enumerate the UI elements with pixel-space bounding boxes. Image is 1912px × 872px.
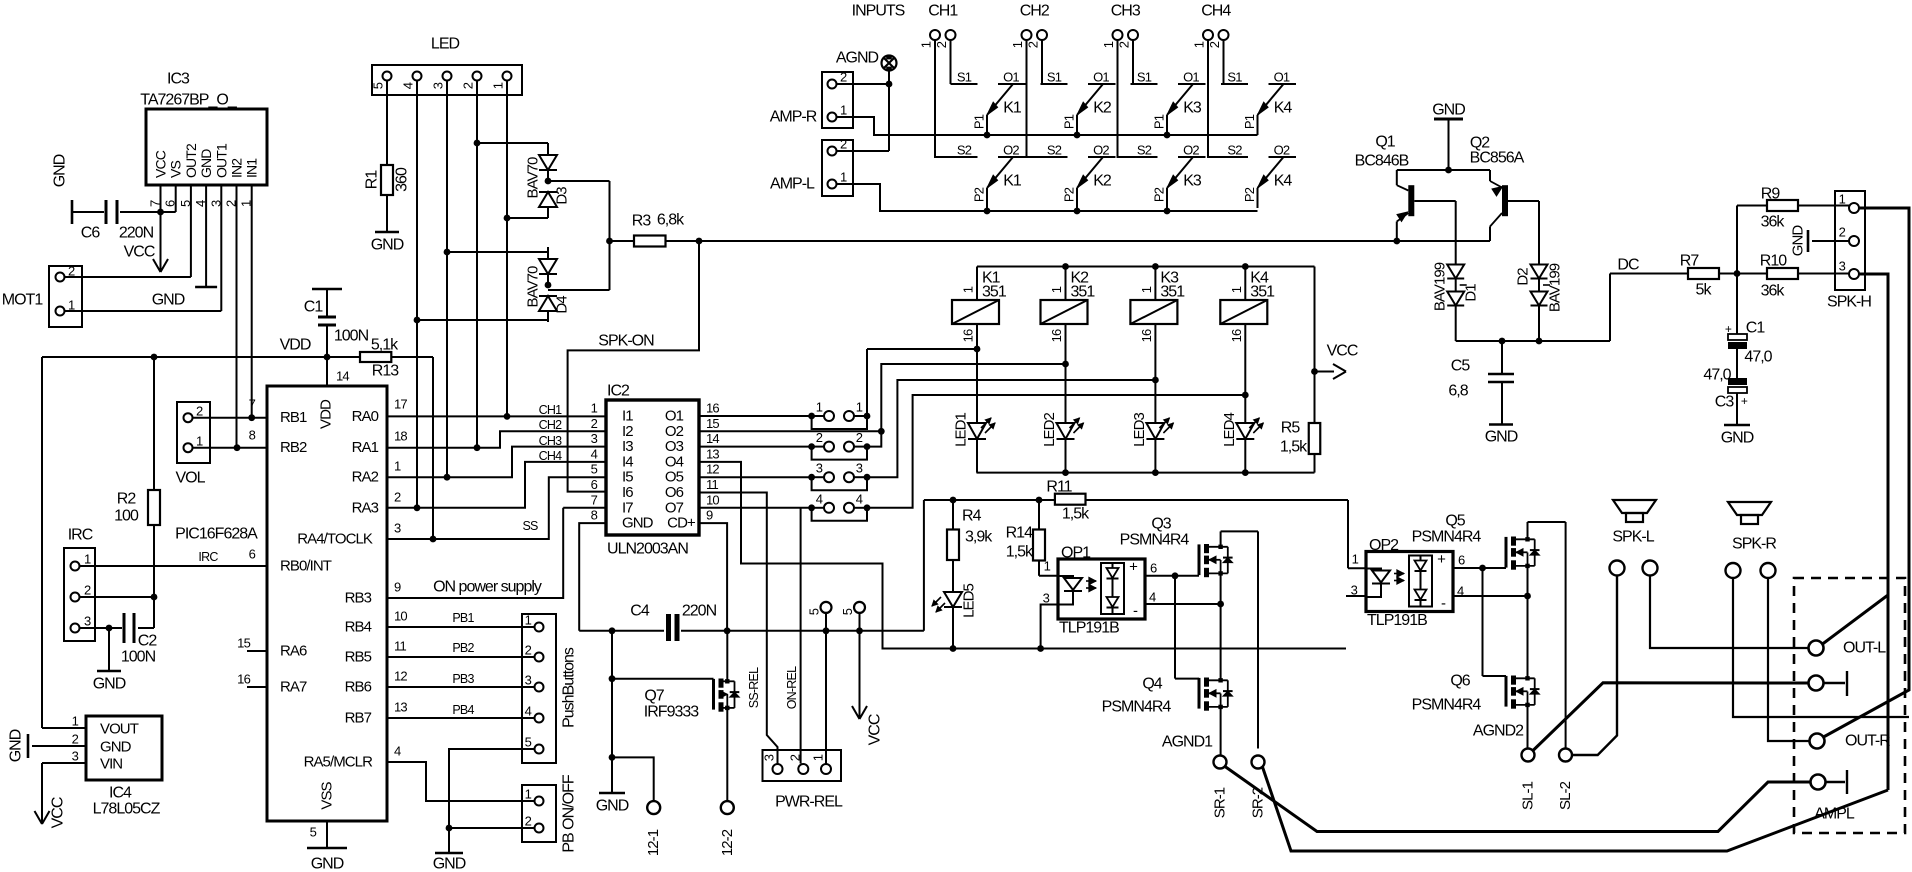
- svg-text:15: 15: [237, 636, 250, 651]
- svg-text:2: 2: [1839, 225, 1846, 240]
- svg-text:2: 2: [196, 404, 203, 419]
- svg-text:5: 5: [807, 608, 822, 615]
- svg-text:LED5: LED5: [961, 584, 978, 618]
- svg-text:BAV70: BAV70: [525, 157, 542, 199]
- svg-text:GND: GND: [311, 856, 344, 872]
- svg-text:OP1: OP1: [1061, 545, 1091, 562]
- svg-text:K2: K2: [1093, 100, 1112, 117]
- svg-text:+: +: [1725, 322, 1732, 336]
- svg-text:13: 13: [706, 446, 719, 461]
- svg-text:VS: VS: [168, 161, 184, 178]
- svg-text:1,5k: 1,5k: [1280, 439, 1308, 456]
- svg-text:K4: K4: [1274, 173, 1293, 190]
- svg-text:3: 3: [72, 749, 79, 764]
- svg-text:PB3: PB3: [452, 672, 474, 686]
- svg-text:PB2: PB2: [452, 641, 474, 655]
- svg-text:RB1: RB1: [280, 409, 307, 426]
- svg-text:1: 1: [84, 552, 91, 567]
- svg-text:C4: C4: [630, 603, 650, 620]
- svg-text:+: +: [1741, 394, 1748, 408]
- svg-text:O2: O2: [1183, 143, 1199, 158]
- svg-text:AGND2: AGND2: [1473, 723, 1524, 740]
- svg-text:DC: DC: [1617, 257, 1639, 274]
- svg-text:16: 16: [961, 329, 976, 342]
- svg-text:1: 1: [196, 434, 203, 449]
- svg-text:BAV199: BAV199: [1547, 263, 1564, 312]
- svg-text:3: 3: [762, 754, 777, 761]
- svg-text:PB4: PB4: [452, 703, 474, 717]
- svg-text:K2: K2: [1093, 173, 1112, 190]
- svg-text:1: 1: [1352, 552, 1359, 567]
- svg-text:IRC: IRC: [68, 527, 93, 544]
- svg-text:RA3: RA3: [352, 499, 379, 516]
- svg-text:1: 1: [840, 170, 847, 185]
- svg-text:360: 360: [394, 167, 411, 192]
- svg-text:R13: R13: [372, 363, 399, 380]
- svg-text:S1: S1: [1227, 70, 1242, 85]
- svg-text:O2: O2: [1003, 143, 1019, 158]
- svg-text:GND: GND: [1790, 225, 1807, 257]
- svg-text:1: 1: [1010, 41, 1025, 48]
- svg-text:TLP191B: TLP191B: [1367, 612, 1427, 629]
- svg-text:D2: D2: [1515, 268, 1532, 286]
- svg-text:100: 100: [114, 508, 139, 525]
- svg-text:GND: GND: [152, 292, 185, 309]
- svg-text:2: 2: [525, 814, 532, 829]
- svg-text:3: 3: [525, 673, 532, 688]
- svg-text:4: 4: [816, 491, 823, 506]
- svg-text:6,8k: 6,8k: [657, 212, 685, 229]
- svg-text:3,9k: 3,9k: [965, 529, 993, 546]
- svg-text:AMPL: AMPL: [1814, 806, 1855, 823]
- svg-text:IRC: IRC: [198, 550, 218, 564]
- svg-text:BAV199: BAV199: [1432, 262, 1449, 311]
- svg-text:RB3: RB3: [345, 590, 372, 607]
- svg-text:PIC16F628A: PIC16F628A: [175, 526, 258, 543]
- svg-text:PSMN4R4: PSMN4R4: [1102, 699, 1172, 716]
- svg-text:C1: C1: [1746, 320, 1766, 337]
- svg-text:2: 2: [816, 430, 823, 445]
- svg-text:RB6: RB6: [345, 679, 372, 696]
- svg-text:5: 5: [840, 608, 855, 615]
- svg-text:13: 13: [394, 700, 407, 715]
- svg-text:2: 2: [840, 70, 847, 85]
- svg-text:LED3: LED3: [1131, 413, 1148, 447]
- svg-text:1: 1: [919, 41, 934, 48]
- svg-text:D4: D4: [554, 296, 571, 314]
- svg-text:O1: O1: [1003, 70, 1019, 85]
- svg-text:11: 11: [394, 639, 406, 654]
- svg-text:2: 2: [1026, 41, 1041, 48]
- svg-text:K3: K3: [1183, 173, 1202, 190]
- svg-text:1: 1: [491, 82, 506, 89]
- svg-text:O2: O2: [1093, 143, 1109, 158]
- svg-text:Q4: Q4: [1142, 676, 1162, 693]
- svg-text:15: 15: [706, 416, 719, 431]
- svg-text:CH1: CH1: [539, 403, 562, 417]
- svg-text:GND: GND: [1432, 102, 1465, 119]
- svg-text:3: 3: [394, 521, 401, 536]
- svg-text:C5: C5: [1451, 358, 1471, 375]
- svg-text:14: 14: [706, 431, 719, 446]
- svg-text:12-2: 12-2: [719, 829, 736, 856]
- svg-text:3: 3: [431, 82, 446, 89]
- svg-text:C2: C2: [138, 633, 158, 650]
- svg-text:1: 1: [525, 613, 532, 628]
- svg-text:3: 3: [1839, 259, 1846, 274]
- svg-text:5,1k: 5,1k: [371, 337, 399, 354]
- svg-text:VCC: VCC: [1327, 343, 1358, 360]
- svg-text:VDD: VDD: [318, 399, 335, 429]
- svg-text:PSMN4R4: PSMN4R4: [1412, 697, 1482, 714]
- svg-text:LED: LED: [431, 36, 460, 53]
- svg-text:2: 2: [788, 754, 803, 761]
- svg-text:Q5: Q5: [1445, 513, 1465, 530]
- svg-text:RA1: RA1: [352, 439, 379, 456]
- svg-text:RB7: RB7: [345, 710, 372, 727]
- svg-text:5k: 5k: [1696, 282, 1713, 299]
- svg-text:SR-2: SR-2: [1250, 787, 1267, 818]
- svg-text:47,0: 47,0: [1744, 349, 1772, 366]
- svg-text:S1: S1: [1137, 70, 1152, 85]
- svg-text:ULN2003AN: ULN2003AN: [607, 541, 688, 558]
- svg-text:12: 12: [394, 669, 407, 684]
- svg-text:CD+: CD+: [667, 515, 696, 532]
- svg-text:1,5k: 1,5k: [1006, 544, 1034, 561]
- svg-text:D3: D3: [554, 187, 571, 205]
- svg-text:SL-1: SL-1: [1520, 781, 1537, 810]
- svg-text:8: 8: [249, 428, 256, 443]
- svg-text:VSS: VSS: [319, 781, 336, 809]
- svg-text:AMP-L: AMP-L: [770, 176, 815, 193]
- svg-text:IC2: IC2: [607, 383, 630, 400]
- svg-text:1: 1: [591, 401, 598, 416]
- svg-text:K1: K1: [1003, 173, 1022, 190]
- svg-text:SPK-H: SPK-H: [1827, 294, 1871, 311]
- svg-text:PushButtons: PushButtons: [561, 647, 578, 728]
- svg-text:5: 5: [591, 462, 598, 477]
- svg-text:1: 1: [961, 286, 976, 293]
- svg-text:PSMN4R4: PSMN4R4: [1120, 532, 1190, 549]
- svg-text:AGND1: AGND1: [1162, 734, 1213, 751]
- svg-text:OUT-R: OUT-R: [1845, 733, 1890, 750]
- svg-text:OUT-L: OUT-L: [1843, 640, 1886, 657]
- svg-text:LED1: LED1: [953, 413, 970, 447]
- svg-text:C6: C6: [81, 225, 101, 242]
- svg-text:OP2: OP2: [1369, 537, 1399, 554]
- svg-text:CH3: CH3: [1111, 3, 1141, 20]
- svg-text:RA5/MCLR: RA5/MCLR: [304, 754, 374, 771]
- svg-text:S2: S2: [1227, 143, 1242, 158]
- svg-text:18: 18: [394, 429, 407, 444]
- svg-text:220N: 220N: [119, 225, 154, 242]
- svg-text:LED2: LED2: [1041, 413, 1058, 447]
- svg-text:C3: C3: [1715, 394, 1735, 411]
- svg-text:ON-REL: ON-REL: [785, 666, 799, 709]
- svg-text:SPK-L: SPK-L: [1612, 529, 1654, 546]
- svg-text:3: 3: [816, 461, 823, 476]
- svg-text:1: 1: [1049, 286, 1064, 293]
- svg-text:1: 1: [72, 714, 79, 729]
- svg-text:IRF9333: IRF9333: [644, 704, 700, 721]
- svg-text:4: 4: [1149, 590, 1156, 605]
- svg-text:Q7: Q7: [644, 688, 664, 705]
- svg-text:TA7267BP_O_: TA7267BP_O_: [140, 92, 238, 109]
- svg-text:2: 2: [1207, 41, 1222, 48]
- svg-text:1,5k: 1,5k: [1062, 506, 1090, 523]
- svg-text:RA6: RA6: [280, 643, 307, 660]
- svg-text:VCC: VCC: [124, 244, 155, 261]
- svg-text:IC3: IC3: [167, 71, 190, 88]
- svg-text:1: 1: [840, 103, 847, 118]
- svg-text:2: 2: [591, 416, 598, 431]
- svg-text:S1: S1: [957, 70, 972, 85]
- svg-text:GND: GND: [596, 798, 629, 815]
- svg-text:2: 2: [525, 643, 532, 658]
- svg-text:8: 8: [591, 508, 598, 523]
- svg-text:VDD: VDD: [280, 337, 311, 354]
- svg-text:P2: P2: [972, 187, 987, 202]
- svg-text:GND: GND: [198, 149, 214, 178]
- svg-text:6: 6: [1458, 553, 1465, 568]
- svg-text:VOUT: VOUT: [100, 721, 139, 738]
- svg-text:CH2: CH2: [1020, 3, 1050, 20]
- svg-text:CH4: CH4: [1201, 3, 1231, 20]
- svg-text:BAV70: BAV70: [525, 266, 542, 308]
- svg-text:3: 3: [1043, 591, 1050, 606]
- svg-text:100N: 100N: [334, 328, 369, 345]
- svg-text:K4: K4: [1274, 100, 1293, 117]
- svg-text:RB2: RB2: [280, 439, 307, 456]
- svg-text:VCC: VCC: [50, 797, 67, 828]
- svg-text:16: 16: [1139, 329, 1154, 342]
- svg-text:16: 16: [1049, 329, 1064, 342]
- svg-text:10: 10: [394, 609, 407, 624]
- svg-text:GND: GND: [93, 676, 126, 693]
- svg-text:4: 4: [401, 82, 416, 89]
- svg-text:RA0: RA0: [352, 408, 379, 425]
- svg-text:P1: P1: [1242, 114, 1257, 129]
- svg-text:Q3: Q3: [1151, 516, 1171, 533]
- svg-text:S1: S1: [1047, 70, 1062, 85]
- svg-text:11: 11: [706, 477, 718, 492]
- svg-text:10: 10: [706, 492, 719, 507]
- svg-text:RB4: RB4: [345, 619, 372, 636]
- svg-text:R3: R3: [632, 213, 652, 230]
- svg-text:GND: GND: [1485, 429, 1518, 446]
- svg-text:IN2: IN2: [229, 158, 245, 178]
- svg-text:OUT2: OUT2: [183, 143, 199, 178]
- svg-text:1: 1: [1192, 41, 1207, 48]
- svg-text:2: 2: [72, 732, 79, 747]
- svg-text:36k: 36k: [1761, 283, 1786, 300]
- svg-text:PSMN4R4: PSMN4R4: [1412, 529, 1482, 546]
- svg-text:9: 9: [394, 580, 401, 595]
- svg-text:3: 3: [856, 461, 863, 476]
- svg-text:BC846B: BC846B: [1355, 153, 1409, 170]
- svg-text:2: 2: [840, 137, 847, 152]
- svg-text:4: 4: [856, 491, 863, 506]
- svg-text:O1: O1: [1183, 70, 1199, 85]
- svg-text:3: 3: [591, 431, 598, 446]
- svg-text:2: 2: [1117, 41, 1132, 48]
- svg-text:4: 4: [525, 704, 532, 719]
- svg-text:R14: R14: [1006, 525, 1033, 542]
- svg-text:GND: GND: [52, 154, 69, 187]
- svg-text:1: 1: [1139, 286, 1154, 293]
- svg-text:AGND: AGND: [836, 50, 879, 67]
- svg-text:R5: R5: [1281, 420, 1301, 437]
- svg-text:4: 4: [394, 744, 401, 759]
- svg-text:CH2: CH2: [539, 418, 562, 432]
- svg-text:P2: P2: [1242, 187, 1257, 202]
- svg-text:4: 4: [591, 446, 598, 461]
- svg-text:L78L05CZ: L78L05CZ: [93, 801, 161, 818]
- svg-text:GND: GND: [622, 515, 654, 532]
- svg-text:100N: 100N: [121, 649, 156, 666]
- svg-text:1: 1: [1229, 286, 1244, 293]
- svg-text:VCC: VCC: [153, 150, 169, 178]
- svg-text:S2: S2: [1047, 143, 1062, 158]
- svg-text:O1: O1: [1093, 70, 1109, 85]
- svg-text:5: 5: [310, 825, 317, 840]
- svg-text:220N: 220N: [682, 603, 717, 620]
- svg-text:GND: GND: [371, 237, 404, 254]
- svg-text:2: 2: [84, 583, 91, 598]
- svg-text:6: 6: [591, 477, 598, 492]
- svg-text:1: 1: [856, 400, 863, 415]
- svg-text:R7: R7: [1680, 253, 1700, 270]
- svg-text:1: 1: [1044, 559, 1051, 574]
- svg-text:SPK-R: SPK-R: [1732, 536, 1776, 553]
- svg-text:P2: P2: [1062, 187, 1077, 202]
- svg-text:2: 2: [856, 430, 863, 445]
- svg-text:K1: K1: [1003, 100, 1022, 117]
- svg-text:1: 1: [394, 459, 401, 474]
- svg-text:6,8: 6,8: [1448, 383, 1468, 400]
- svg-text:351: 351: [1071, 284, 1096, 301]
- svg-text:S2: S2: [1137, 143, 1152, 158]
- svg-text:R10: R10: [1760, 253, 1787, 270]
- svg-text:5: 5: [525, 735, 532, 750]
- svg-text:R2: R2: [117, 491, 137, 508]
- svg-text:RB0/INT: RB0/INT: [280, 558, 332, 575]
- svg-text:IN1: IN1: [244, 158, 260, 178]
- svg-text:BC856A: BC856A: [1470, 150, 1525, 167]
- svg-text:7: 7: [591, 492, 598, 507]
- svg-text:12-1: 12-1: [645, 829, 662, 856]
- svg-text:CH4: CH4: [539, 449, 562, 463]
- svg-text:R11: R11: [1046, 479, 1072, 496]
- svg-text:14: 14: [336, 369, 349, 384]
- svg-text:LED4: LED4: [1221, 413, 1238, 447]
- svg-text:C1: C1: [304, 299, 324, 316]
- svg-text:P2: P2: [1152, 187, 1167, 202]
- svg-text:O2: O2: [1274, 143, 1290, 158]
- svg-text:RB5: RB5: [345, 649, 372, 666]
- svg-text:D1: D1: [1463, 284, 1480, 302]
- svg-text:IC4: IC4: [109, 785, 132, 802]
- svg-text:VOL: VOL: [175, 470, 205, 487]
- svg-text:K3: K3: [1183, 100, 1202, 117]
- svg-text:RA2: RA2: [352, 469, 379, 486]
- svg-text:+: +: [1129, 559, 1138, 576]
- svg-text:PWR-REL: PWR-REL: [775, 794, 843, 811]
- svg-text:SPK-ON: SPK-ON: [598, 333, 654, 350]
- svg-text:17: 17: [394, 397, 407, 412]
- svg-text:12: 12: [706, 462, 719, 477]
- svg-text:2: 2: [934, 41, 949, 48]
- svg-text:9: 9: [706, 508, 713, 523]
- svg-text:RA4/TOCLK: RA4/TOCLK: [297, 531, 373, 548]
- svg-text:RA7: RA7: [280, 679, 307, 696]
- svg-text:Q6: Q6: [1450, 673, 1470, 690]
- svg-text:VCC: VCC: [867, 714, 884, 745]
- svg-text:5: 5: [371, 82, 386, 89]
- svg-text:36k: 36k: [1761, 214, 1786, 231]
- svg-text:1: 1: [811, 754, 826, 761]
- svg-text:R9: R9: [1761, 186, 1781, 203]
- svg-text:PB ON/OFF: PB ON/OFF: [561, 774, 578, 853]
- svg-text:R4: R4: [962, 508, 982, 525]
- svg-text:1: 1: [816, 400, 823, 415]
- svg-text:P1: P1: [1062, 114, 1077, 129]
- svg-text:16: 16: [237, 672, 250, 687]
- svg-text:351: 351: [1250, 284, 1275, 301]
- svg-text:6: 6: [249, 547, 256, 562]
- svg-text:+: +: [1437, 551, 1446, 568]
- svg-text:16: 16: [1229, 329, 1244, 342]
- svg-text:SS: SS: [522, 519, 538, 533]
- svg-text:3: 3: [84, 614, 91, 629]
- svg-text:TLP191B: TLP191B: [1059, 620, 1119, 637]
- svg-text:2: 2: [461, 82, 476, 89]
- svg-text:P1: P1: [972, 114, 987, 129]
- svg-text:S2: S2: [957, 143, 972, 158]
- svg-text:CH1: CH1: [928, 3, 958, 20]
- svg-text:R1: R1: [364, 170, 381, 190]
- svg-text:PB1: PB1: [452, 611, 474, 625]
- svg-text:351: 351: [982, 284, 1007, 301]
- svg-text:GND: GND: [433, 856, 466, 872]
- svg-text:SR-1: SR-1: [1212, 787, 1229, 818]
- svg-text:1: 1: [525, 787, 532, 802]
- svg-text:7: 7: [249, 397, 256, 412]
- svg-text:Q1: Q1: [1375, 134, 1395, 151]
- svg-text:O1: O1: [1274, 70, 1290, 85]
- svg-text:MOT1: MOT1: [2, 292, 44, 309]
- svg-text:SS-REL: SS-REL: [747, 667, 761, 708]
- svg-text:GND: GND: [8, 729, 25, 762]
- svg-text:OUT1: OUT1: [213, 143, 229, 178]
- svg-text:16: 16: [706, 401, 719, 416]
- svg-text:AMP-R: AMP-R: [770, 109, 817, 126]
- svg-text:INPUTS: INPUTS: [852, 3, 905, 20]
- svg-text:GND: GND: [100, 739, 132, 756]
- svg-text:VIN: VIN: [100, 756, 122, 773]
- svg-text:P1: P1: [1152, 114, 1167, 129]
- svg-text:1: 1: [1101, 41, 1116, 48]
- svg-text:1: 1: [1839, 192, 1846, 207]
- svg-text:GND: GND: [1721, 430, 1754, 447]
- svg-text:SL-2: SL-2: [1557, 781, 1574, 810]
- svg-text:6: 6: [1150, 561, 1157, 576]
- svg-text:ON power supply: ON power supply: [433, 579, 542, 596]
- svg-text:47,0: 47,0: [1703, 367, 1731, 384]
- svg-text:2: 2: [394, 490, 401, 505]
- svg-text:CH3: CH3: [539, 434, 562, 448]
- svg-text:351: 351: [1160, 284, 1185, 301]
